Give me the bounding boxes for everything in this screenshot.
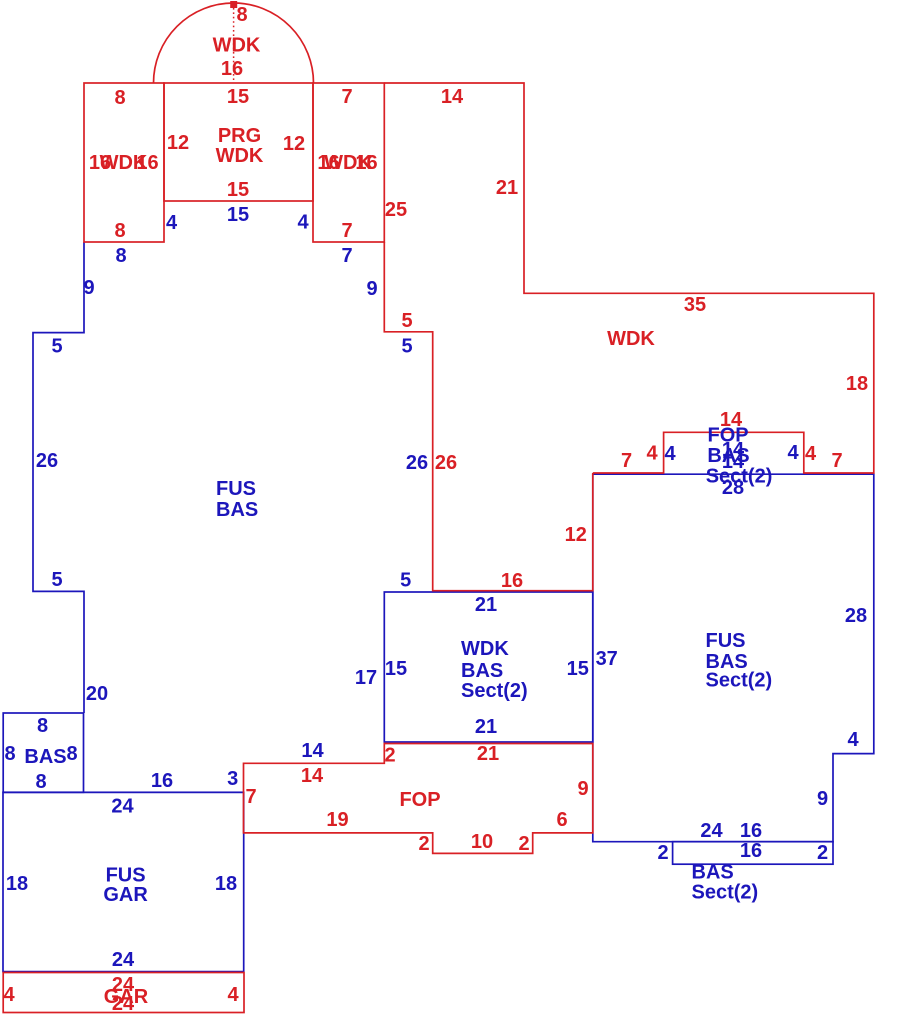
svg-text:19: 19 [326,809,348,831]
svg-text:26: 26 [406,452,428,474]
svg-text:7: 7 [621,450,632,472]
svg-text:FUS: FUS [216,478,256,500]
svg-text:BAS: BAS [24,746,66,768]
svg-text:24: 24 [700,820,723,842]
svg-text:9: 9 [83,277,94,299]
svg-text:2: 2 [817,842,828,864]
svg-text:26: 26 [435,452,457,474]
svg-text:8: 8 [4,743,15,765]
svg-text:18: 18 [215,873,237,895]
svg-text:4: 4 [227,984,239,1006]
svg-text:28: 28 [845,605,867,627]
svg-text:21: 21 [475,594,497,616]
svg-text:5: 5 [400,570,411,592]
svg-text:FUS: FUS [706,630,746,652]
svg-text:15: 15 [567,658,589,680]
svg-text:18: 18 [846,373,868,395]
svg-text:FOP: FOP [708,425,749,447]
svg-text:5: 5 [51,336,62,358]
svg-text:Sect(2): Sect(2) [706,466,773,488]
svg-text:4: 4 [805,443,817,465]
svg-text:5: 5 [401,310,412,332]
svg-text:18: 18 [6,873,28,895]
svg-text:24: 24 [111,796,134,818]
svg-text:16: 16 [136,152,158,174]
svg-text:BAS: BAS [707,445,749,467]
svg-text:2: 2 [418,833,429,855]
svg-text:2: 2 [657,842,668,864]
svg-text:9: 9 [366,278,377,300]
svg-text:15: 15 [227,204,249,226]
svg-text:4: 4 [297,212,309,234]
svg-text:16: 16 [221,58,243,80]
svg-text:5: 5 [401,336,412,358]
svg-text:10: 10 [471,831,493,853]
svg-text:Sect(2): Sect(2) [706,670,773,692]
svg-text:BAS: BAS [461,660,503,682]
svg-text:9: 9 [577,778,588,800]
svg-text:15: 15 [385,658,407,680]
svg-text:WDK: WDK [607,328,655,350]
svg-text:8: 8 [115,245,126,267]
svg-text:8: 8 [66,743,77,765]
svg-text:3: 3 [227,768,238,790]
svg-text:GAR: GAR [103,884,148,906]
svg-text:BAS: BAS [216,499,258,521]
svg-text:16: 16 [740,820,762,842]
svg-text:14: 14 [301,740,324,762]
svg-text:8: 8 [114,87,125,109]
svg-text:21: 21 [477,743,499,765]
svg-text:Sect(2): Sect(2) [461,680,528,702]
svg-text:BAS: BAS [692,862,734,884]
svg-text:25: 25 [385,199,407,221]
svg-text:17: 17 [355,667,377,689]
svg-text:7: 7 [245,786,256,808]
svg-text:12: 12 [167,132,189,154]
svg-text:12: 12 [283,133,305,155]
svg-text:21: 21 [475,716,497,738]
svg-text:Sect(2): Sect(2) [692,882,759,904]
svg-text:9: 9 [817,788,828,810]
svg-text:15: 15 [227,86,249,108]
svg-text:14: 14 [441,86,464,108]
svg-text:PRG: PRG [218,125,261,147]
svg-text:14: 14 [301,765,324,787]
svg-text:35: 35 [684,294,706,316]
svg-text:7: 7 [341,86,352,108]
svg-text:37: 37 [596,648,618,670]
svg-text:4: 4 [847,729,859,751]
svg-text:8: 8 [236,4,247,26]
svg-text:2: 2 [518,833,529,855]
svg-text:WDK: WDK [213,35,261,57]
svg-text:16: 16 [151,770,173,792]
svg-text:24: 24 [112,993,135,1015]
svg-text:4: 4 [646,443,658,465]
svg-text:4: 4 [3,984,15,1006]
svg-text:8: 8 [37,715,48,737]
svg-text:15: 15 [227,179,249,201]
svg-text:8: 8 [114,220,125,242]
svg-text:2: 2 [384,745,395,767]
svg-text:4: 4 [787,442,799,464]
svg-text:21: 21 [496,177,518,199]
svg-text:5: 5 [51,569,62,591]
svg-text:16: 16 [740,840,762,862]
svg-text:4: 4 [166,212,178,234]
svg-text:7: 7 [341,220,352,242]
svg-text:7: 7 [341,245,352,267]
svg-text:8: 8 [35,771,46,793]
svg-text:7: 7 [831,450,842,472]
svg-text:4: 4 [664,443,676,465]
svg-text:16: 16 [355,152,377,174]
svg-text:6: 6 [556,809,567,831]
svg-text:FUS: FUS [106,865,146,887]
svg-text:12: 12 [565,524,587,546]
svg-text:26: 26 [36,450,58,472]
svg-text:24: 24 [112,949,135,971]
svg-text:FOP: FOP [399,789,440,811]
svg-text:20: 20 [86,683,108,705]
svg-text:16: 16 [501,570,523,592]
svg-text:WDK: WDK [461,638,509,660]
svg-text:WDK: WDK [216,145,264,167]
